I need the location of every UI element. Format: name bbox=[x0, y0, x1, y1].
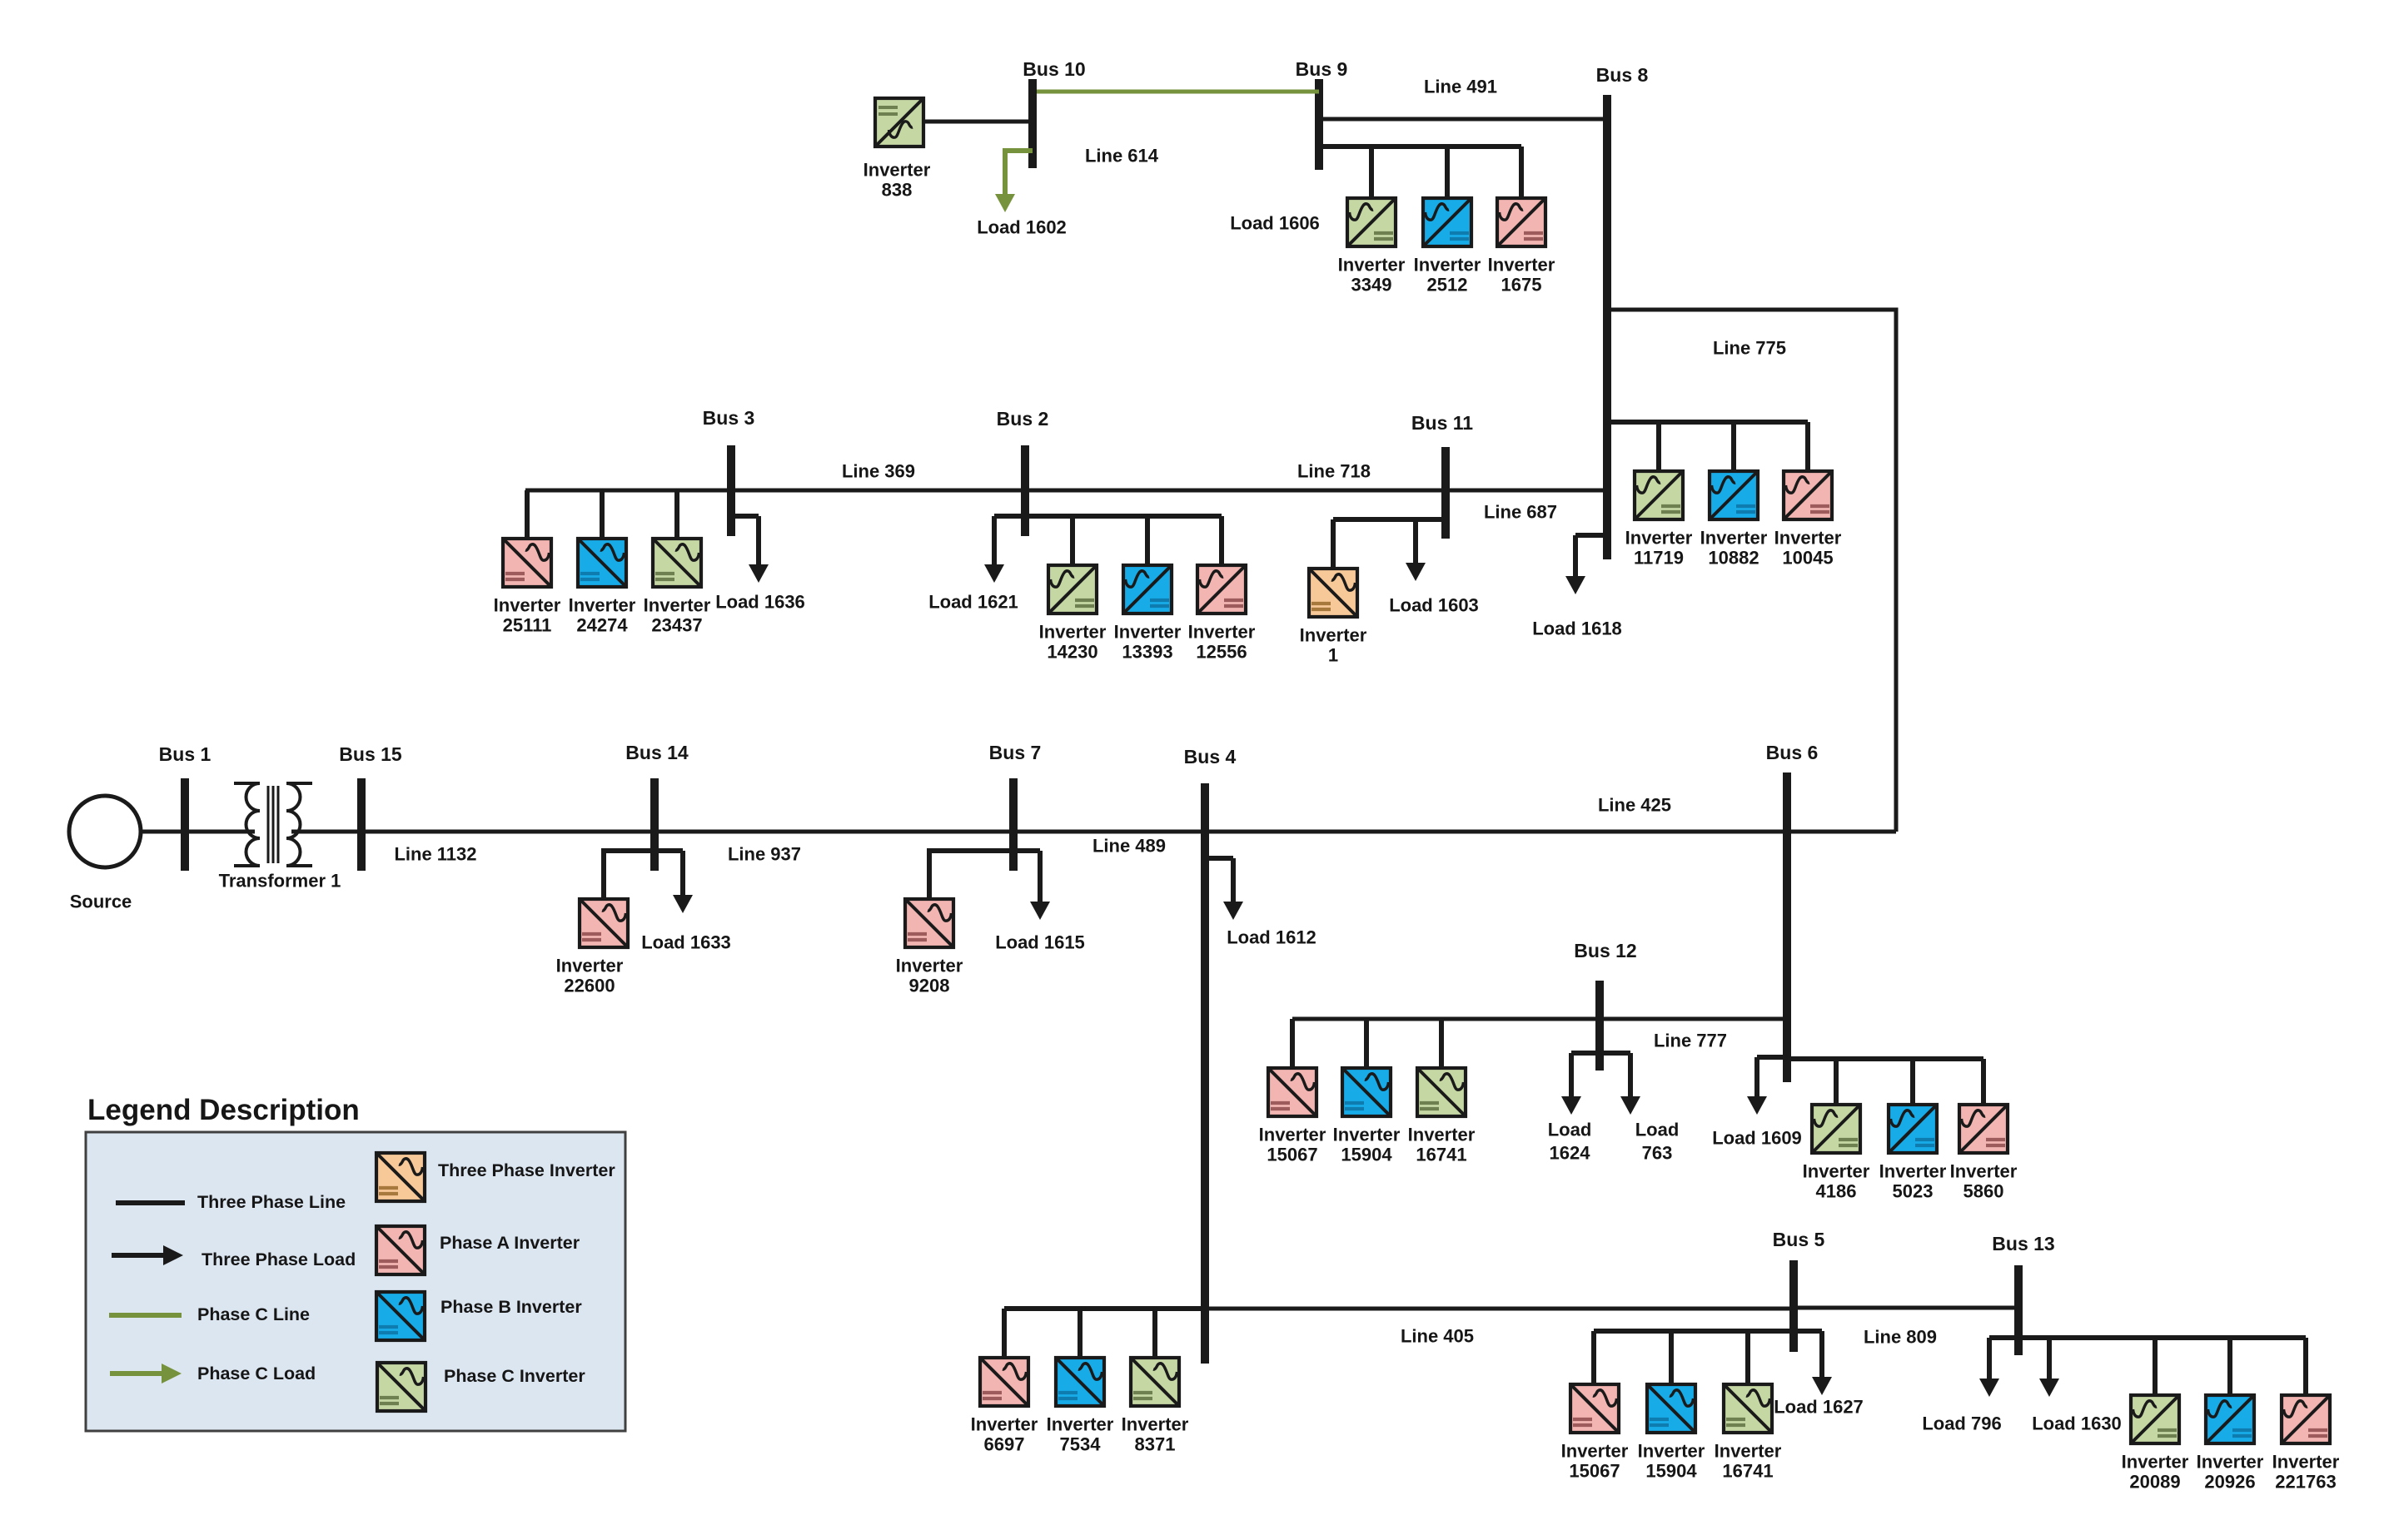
svg-text:Load 1615: Load 1615 bbox=[995, 932, 1085, 953]
line Line 1132 Bus 15 to Bus 14 bbox=[361, 830, 654, 834]
svg-text:15904: 15904 bbox=[1645, 1461, 1697, 1482]
load arrow Load 1627 bbox=[1819, 1331, 1824, 1379]
svg-text:Line 809: Line 809 bbox=[1864, 1327, 1937, 1348]
svg-text:Inverter: Inverter bbox=[1715, 1441, 1782, 1462]
svg-text:15067: 15067 bbox=[1267, 1145, 1317, 1165]
svg-text:Transformer 1: Transformer 1 bbox=[219, 871, 341, 892]
legend three phase load sample bbox=[112, 1253, 163, 1258]
inverter 9208 bbox=[905, 899, 953, 947]
svg-text:Line 687: Line 687 bbox=[1484, 502, 1557, 523]
svg-text:1624: 1624 bbox=[1550, 1143, 1591, 1164]
drop to Inverter 11719 bbox=[1656, 422, 1661, 469]
drop to Inverter 3349 bbox=[1369, 147, 1374, 196]
group line right of Bus 8 bbox=[1607, 420, 1808, 425]
bus bar Bus 8 bbox=[1603, 95, 1611, 559]
svg-text:Bus 15: Bus 15 bbox=[339, 743, 402, 765]
svg-text:10045: 10045 bbox=[1782, 548, 1833, 569]
drop to Inverter 1675 bbox=[1519, 147, 1524, 196]
legend box bbox=[86, 1132, 625, 1431]
bus bar Bus 12 bbox=[1595, 981, 1604, 1071]
svg-text:Bus 14: Bus 14 bbox=[625, 742, 689, 763]
svg-text:3349: 3349 bbox=[1351, 275, 1392, 296]
svg-text:4186: 4186 bbox=[1816, 1181, 1857, 1202]
inverter 1 bbox=[1309, 569, 1357, 617]
drop to Inverter 20926 bbox=[2227, 1338, 2232, 1393]
svg-text:15067: 15067 bbox=[1569, 1461, 1620, 1482]
drop to Inverter 2512 bbox=[1445, 147, 1450, 196]
svg-text:Line 489: Line 489 bbox=[1092, 836, 1166, 857]
svg-text:Inverter: Inverter bbox=[1039, 622, 1107, 643]
inverter 5023 bbox=[1889, 1105, 1937, 1153]
svg-text:10882: 10882 bbox=[1708, 548, 1759, 569]
svg-text:Bus 7: Bus 7 bbox=[989, 742, 1042, 763]
group line under Bus 4 bbox=[1004, 1306, 1205, 1311]
drop to Inverter 6697 bbox=[1002, 1309, 1007, 1356]
svg-text:Three Phase Line: Three Phase Line bbox=[197, 1192, 346, 1212]
svg-text:Inverter: Inverter bbox=[1047, 1414, 1114, 1435]
bus bar Bus 7 bbox=[1009, 778, 1018, 871]
inverter 22600 bbox=[580, 899, 628, 947]
svg-text:6697: 6697 bbox=[984, 1434, 1025, 1455]
svg-text:1: 1 bbox=[1328, 645, 1338, 666]
svg-text:Inverter: Inverter bbox=[1338, 255, 1406, 276]
svg-text:Inverter: Inverter bbox=[1774, 528, 1842, 549]
drop to Inverter 5860 bbox=[1981, 1059, 1986, 1103]
svg-text:20089: 20089 bbox=[2129, 1472, 2180, 1493]
svg-text:Load 1630: Load 1630 bbox=[2032, 1413, 2122, 1434]
svg-text:16741: 16741 bbox=[1416, 1145, 1466, 1165]
inverter 20089 bbox=[2131, 1395, 2179, 1443]
drop to Inverter 14230 bbox=[1070, 516, 1075, 564]
load arrow Load 1612 bbox=[1231, 858, 1236, 903]
drop to Inverter 12556 bbox=[1219, 516, 1224, 564]
drop to Inverter 16741 (Bus 5) bbox=[1745, 1331, 1750, 1383]
svg-text:Inverter: Inverter bbox=[1122, 1414, 1189, 1435]
drop to Inverter 1 bbox=[1331, 519, 1336, 567]
svg-text:1675: 1675 bbox=[1501, 275, 1542, 296]
svg-text:Load 1606: Load 1606 bbox=[1230, 213, 1320, 234]
legend three phase line sample bbox=[116, 1200, 185, 1205]
bus bar Bus 6 bbox=[1783, 772, 1791, 1082]
stub Bus 12 loads bbox=[1571, 1051, 1630, 1056]
legend phase C line sample bbox=[109, 1313, 182, 1318]
svg-text:Inverter: Inverter bbox=[1488, 255, 1555, 276]
svg-text:Inverter: Inverter bbox=[1333, 1125, 1401, 1145]
load arrow Load 1618 bbox=[1573, 535, 1578, 578]
svg-text:Inverter: Inverter bbox=[1950, 1161, 2018, 1182]
svg-text:Inverter: Inverter bbox=[2122, 1452, 2189, 1473]
load arrow Load 1633 bbox=[680, 851, 685, 897]
svg-text:Line 491: Line 491 bbox=[1424, 77, 1497, 97]
drop to Inverter 15067 (Bus 5) bbox=[1591, 1331, 1596, 1383]
svg-text:Bus 8: Bus 8 bbox=[1596, 64, 1649, 86]
svg-text:Bus 2: Bus 2 bbox=[997, 408, 1049, 430]
group line under Bus 2 bbox=[994, 514, 1222, 519]
drop to Inverter 16741 (Bus 12) bbox=[1439, 1019, 1444, 1066]
load arrow Load 1615 bbox=[1038, 851, 1043, 903]
svg-text:Line 718: Line 718 bbox=[1297, 461, 1371, 482]
line Line 614 Bus 10 to Bus 9 (phase C) bbox=[1033, 90, 1319, 94]
svg-text:Bus 13: Bus 13 bbox=[1992, 1233, 2054, 1254]
legend phase C load sample bbox=[110, 1371, 162, 1376]
stub Bus 4 to Load 1612 bbox=[1205, 856, 1233, 861]
line Line 425 Bus 4 to Bus 6 and corner bbox=[1205, 830, 1896, 834]
svg-text:Phase C Inverter: Phase C Inverter bbox=[444, 1366, 585, 1386]
svg-text:Phase C Line: Phase C Line bbox=[197, 1304, 310, 1324]
svg-text:Line 775: Line 775 bbox=[1713, 338, 1786, 359]
inverter 10045 bbox=[1784, 471, 1832, 519]
svg-text:Inverter: Inverter bbox=[2197, 1452, 2264, 1473]
svg-text:Legend Description: Legend Description bbox=[87, 1094, 360, 1126]
legend icon phase B inverter bbox=[376, 1292, 425, 1340]
svg-text:Inverter: Inverter bbox=[556, 956, 624, 976]
stub Bus 3 to Load 1636 bbox=[731, 514, 759, 519]
drop to Inverter 20089 bbox=[2153, 1338, 2158, 1393]
svg-text:Bus 6: Bus 6 bbox=[1766, 742, 1819, 763]
svg-text:5860: 5860 bbox=[1963, 1181, 2004, 1202]
inverter 4186 bbox=[1812, 1105, 1860, 1153]
bus bar Bus 11 bbox=[1441, 447, 1450, 539]
svg-text:Line 937: Line 937 bbox=[728, 844, 801, 865]
group line under Bus 5 bbox=[1594, 1329, 1822, 1334]
svg-text:Load 1603: Load 1603 bbox=[1389, 595, 1479, 616]
wire Inverter 22600 to Bus 14 bbox=[604, 851, 654, 897]
drop to Inverter 8371 bbox=[1152, 1309, 1157, 1356]
inverter 3349 bbox=[1347, 198, 1396, 246]
stub Bus 8 to Load 1618 bbox=[1575, 533, 1607, 538]
bus bar Bus 9 bbox=[1315, 79, 1323, 170]
inverter 6697 bbox=[980, 1358, 1028, 1406]
svg-text:Inverter: Inverter bbox=[1300, 625, 1367, 646]
svg-text:Phase A Inverter: Phase A Inverter bbox=[440, 1233, 580, 1253]
line Line 491 Bus 9 to Bus 8 bbox=[1319, 117, 1607, 122]
svg-text:24274: 24274 bbox=[576, 615, 628, 636]
stub Bus 14 to Load 1633 bbox=[654, 848, 683, 853]
bus bar Bus 15 bbox=[357, 778, 366, 871]
svg-text:16741: 16741 bbox=[1722, 1461, 1773, 1482]
source circle bbox=[69, 796, 141, 867]
bus bar Bus 2 bbox=[1021, 445, 1029, 536]
inverter 221763 bbox=[2282, 1395, 2330, 1443]
load arrow Load 1609 bbox=[1754, 1057, 1759, 1098]
svg-text:Bus 10: Bus 10 bbox=[1023, 58, 1085, 80]
svg-text:13393: 13393 bbox=[1122, 642, 1172, 663]
svg-text:15904: 15904 bbox=[1341, 1145, 1392, 1165]
load arrow Load 1602 (phase C) bbox=[1003, 151, 1008, 196]
drop to Inverter 13393 bbox=[1145, 516, 1150, 564]
bus bar Bus 3 bbox=[727, 445, 735, 536]
bus bar Bus 13 bbox=[2014, 1265, 2023, 1355]
group line right of Bus 6 bbox=[1787, 1056, 1983, 1061]
svg-text:Line 405: Line 405 bbox=[1401, 1326, 1474, 1347]
drop to Inverter 4186 bbox=[1834, 1059, 1839, 1103]
svg-text:11719: 11719 bbox=[1634, 548, 1684, 569]
svg-text:Load 1618: Load 1618 bbox=[1532, 618, 1622, 639]
group line under Bus 11 bbox=[1333, 517, 1446, 522]
load arrow Load 1624 bbox=[1569, 1053, 1574, 1098]
svg-text:221763: 221763 bbox=[2275, 1472, 2336, 1493]
stub Bus 7 to Load 1615 bbox=[1013, 848, 1040, 853]
svg-text:8371: 8371 bbox=[1135, 1434, 1176, 1455]
svg-text:Load 796: Load 796 bbox=[1922, 1413, 2001, 1434]
load arrow Load 1630 bbox=[2047, 1338, 2052, 1380]
drop to Inverter 23437 bbox=[674, 490, 679, 537]
drop to Inverter 5023 bbox=[1910, 1059, 1915, 1103]
svg-text:9208: 9208 bbox=[909, 976, 950, 996]
svg-text:22600: 22600 bbox=[564, 976, 615, 996]
load arrow Load 1603 bbox=[1413, 519, 1418, 564]
bus bar Bus 14 bbox=[650, 778, 659, 871]
stub Bus 6 to Load 1609 bbox=[1757, 1055, 1787, 1060]
svg-text:Inverter: Inverter bbox=[494, 595, 561, 616]
svg-text:Three Phase Load: Three Phase Load bbox=[202, 1249, 356, 1269]
inverter 12556 bbox=[1197, 565, 1246, 614]
svg-text:Three Phase Inverter: Three Phase Inverter bbox=[438, 1160, 615, 1180]
svg-text:Inverter: Inverter bbox=[1625, 528, 1693, 549]
stub Bus 10 phase C load bbox=[1005, 151, 1033, 194]
load arrow Load 796 bbox=[1987, 1338, 1992, 1380]
inverter 14230 bbox=[1048, 565, 1097, 614]
group line under Bus 13 bbox=[1989, 1335, 2306, 1340]
svg-text:Line 614: Line 614 bbox=[1085, 146, 1159, 166]
inverter 15904 bbox=[1342, 1068, 1391, 1116]
svg-text:5023: 5023 bbox=[1893, 1181, 1934, 1202]
drop to Inverter 25111 bbox=[525, 490, 530, 537]
legend icon phase C inverter bbox=[377, 1363, 426, 1411]
svg-text:Inverter: Inverter bbox=[896, 956, 963, 976]
inverter 24274 bbox=[578, 539, 626, 587]
svg-text:Line 777: Line 777 bbox=[1654, 1031, 1727, 1051]
wire Bus 1 to Transformer 1 bbox=[185, 830, 255, 834]
drop to Inverter 15904 (Bus 5) bbox=[1669, 1331, 1674, 1383]
bus bar Bus 10 bbox=[1028, 79, 1037, 168]
svg-text:14230: 14230 bbox=[1047, 642, 1097, 663]
svg-text:Inverter: Inverter bbox=[1803, 1161, 1870, 1182]
svg-text:Inverter: Inverter bbox=[1561, 1441, 1629, 1462]
svg-text:Inverter: Inverter bbox=[569, 595, 636, 616]
inverter 23437 bbox=[653, 539, 701, 587]
svg-text:7534: 7534 bbox=[1060, 1434, 1102, 1455]
load arrow Load 1621 bbox=[992, 516, 997, 566]
svg-text:Bus 4: Bus 4 bbox=[1184, 746, 1237, 768]
line Line 369 and Line 718 and Line 687 row bbox=[525, 489, 1607, 493]
svg-text:Bus 3: Bus 3 bbox=[703, 407, 755, 429]
svg-text:25111: 25111 bbox=[503, 615, 552, 636]
inverter 13393 bbox=[1123, 565, 1172, 614]
legend icon three phase inverter bbox=[376, 1153, 425, 1201]
svg-text:Inverter: Inverter bbox=[1414, 255, 1481, 276]
wire Transformer 1 to Bus 15 bbox=[291, 830, 361, 834]
wire source to Bus 1 bbox=[141, 830, 185, 834]
drop to Inverter 15904 (Bus 12) bbox=[1364, 1019, 1369, 1066]
svg-text:763: 763 bbox=[1642, 1143, 1673, 1164]
inverter 5860 bbox=[1959, 1105, 2008, 1153]
svg-text:Bus 9: Bus 9 bbox=[1296, 58, 1348, 80]
svg-text:23437: 23437 bbox=[651, 615, 702, 636]
svg-text:Source: Source bbox=[70, 892, 132, 912]
group line under Bus 9 bbox=[1319, 144, 1521, 149]
load arrow Load 1636 bbox=[756, 516, 761, 566]
bus bar Bus 4 bbox=[1201, 783, 1209, 1364]
inverter 20926 bbox=[2206, 1395, 2254, 1443]
svg-text:Inverter: Inverter bbox=[1879, 1161, 1947, 1182]
svg-text:Load 1612: Load 1612 bbox=[1227, 927, 1316, 948]
line Line 775 from Bus 8 down to main line bbox=[1607, 310, 1896, 832]
drop to Inverter 7534 bbox=[1078, 1309, 1083, 1356]
svg-text:Inverter: Inverter bbox=[864, 160, 931, 181]
svg-text:Line 1132: Line 1132 bbox=[394, 844, 476, 865]
svg-text:Load: Load bbox=[1635, 1120, 1680, 1140]
line Line 937 Bus 14 to Bus 7 bbox=[654, 830, 1013, 834]
svg-text:Load 1602: Load 1602 bbox=[977, 217, 1067, 238]
bus bar Bus 1 bbox=[181, 778, 189, 871]
svg-text:Phase B Inverter: Phase B Inverter bbox=[440, 1297, 582, 1317]
svg-text:Load 1636: Load 1636 bbox=[715, 592, 805, 613]
inverter 1675 bbox=[1497, 198, 1545, 246]
line Line 809 Bus 5 to Bus 13 bbox=[1794, 1306, 2018, 1310]
svg-text:Bus 5: Bus 5 bbox=[1773, 1229, 1825, 1250]
wire Inverter 838 to Bus 10 bbox=[925, 120, 1033, 124]
svg-text:Inverter: Inverter bbox=[1114, 622, 1182, 643]
inverter 15067 bbox=[1570, 1384, 1619, 1433]
line Line 405 Bus 4 to Bus 5 bbox=[1205, 1307, 1794, 1311]
line Line 489 Bus 7 to Bus 4 bbox=[1013, 830, 1205, 834]
svg-text:Inverter: Inverter bbox=[971, 1414, 1038, 1435]
svg-text:Inverter: Inverter bbox=[644, 595, 711, 616]
svg-text:Line 369: Line 369 bbox=[842, 461, 915, 482]
drop to Inverter 15067 (Bus 12) bbox=[1290, 1019, 1295, 1066]
svg-text:20926: 20926 bbox=[2204, 1472, 2255, 1493]
svg-text:Inverter: Inverter bbox=[1259, 1125, 1326, 1145]
svg-text:Inverter: Inverter bbox=[1638, 1441, 1705, 1462]
svg-text:Bus 11: Bus 11 bbox=[1411, 412, 1473, 434]
drop to Inverter 24274 bbox=[600, 490, 605, 537]
inverter 838 bbox=[875, 98, 923, 147]
svg-text:Inverter: Inverter bbox=[1700, 528, 1768, 549]
svg-text:838: 838 bbox=[882, 180, 913, 201]
inverter 10882 bbox=[1710, 471, 1758, 519]
drop to Inverter 10882 bbox=[1731, 422, 1736, 469]
inverter 7534 bbox=[1056, 1358, 1104, 1406]
inverter 8371 bbox=[1131, 1358, 1179, 1406]
wire Inverter 9208 stub bbox=[929, 851, 1013, 897]
svg-text:Phase C Load: Phase C Load bbox=[197, 1364, 316, 1384]
legend icon phase A inverter bbox=[376, 1226, 425, 1274]
svg-text:Load 1621: Load 1621 bbox=[928, 592, 1018, 613]
svg-text:Load 1633: Load 1633 bbox=[641, 932, 731, 953]
transformer T1 bbox=[234, 783, 312, 866]
svg-text:Bus 12: Bus 12 bbox=[1574, 940, 1636, 961]
svg-text:Bus 1: Bus 1 bbox=[159, 743, 212, 765]
bus bar Bus 5 bbox=[1789, 1260, 1798, 1352]
inverter 16741 bbox=[1724, 1384, 1772, 1433]
inverter 16741 bbox=[1417, 1068, 1466, 1116]
svg-text:Load 1627: Load 1627 bbox=[1774, 1397, 1864, 1418]
svg-text:Load: Load bbox=[1548, 1120, 1592, 1140]
drop to Inverter 221763 bbox=[2303, 1338, 2308, 1393]
inverter 15067 bbox=[1268, 1068, 1316, 1116]
svg-text:Load 1609: Load 1609 bbox=[1712, 1128, 1802, 1149]
drop to Inverter 10045 bbox=[1805, 422, 1810, 469]
line Line 777 Bus 12 to Bus 6 bbox=[1292, 1017, 1787, 1021]
svg-text:2512: 2512 bbox=[1427, 275, 1468, 296]
svg-text:Inverter: Inverter bbox=[2272, 1452, 2340, 1473]
svg-text:12556: 12556 bbox=[1196, 642, 1247, 663]
inverter 25111 bbox=[503, 539, 551, 587]
inverter 2512 bbox=[1423, 198, 1471, 246]
svg-text:Inverter: Inverter bbox=[1408, 1125, 1476, 1145]
inverter 15904 bbox=[1647, 1384, 1695, 1433]
svg-text:Inverter: Inverter bbox=[1188, 622, 1256, 643]
svg-text:Line 425: Line 425 bbox=[1598, 795, 1671, 816]
load arrow Load 763 bbox=[1628, 1053, 1633, 1098]
inverter 11719 bbox=[1635, 471, 1683, 519]
